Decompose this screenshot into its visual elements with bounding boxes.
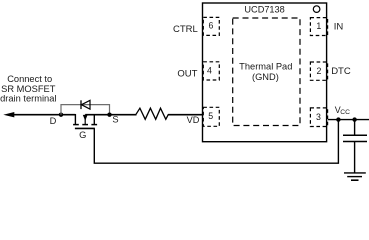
diode D1 (body diode) [81, 100, 90, 109]
svg-text:1: 1 [316, 21, 321, 31]
svg-text:G: G [79, 130, 86, 140]
svg-text:OUT: OUT [177, 69, 197, 80]
wire: VCC to capacitor [354, 120, 356, 135]
svg-text:Connect to: Connect to [7, 74, 52, 84]
node VCC junction dot (capacitor branch) [352, 117, 356, 121]
wire: capacitor to ground [354, 142, 356, 173]
pin 5 pad [203, 107, 219, 126]
pin 2 pad [310, 62, 327, 80]
svg-text:5: 5 [208, 111, 213, 121]
pin 3 pad [310, 108, 327, 127]
wire: resistor to VD pin [168, 114, 203, 116]
svg-text:D: D [50, 116, 57, 126]
pin 6 pad [203, 17, 219, 35]
node S junction dot [107, 113, 111, 117]
op-amp U1 UCD7138 package outline [203, 3, 327, 142]
net label VCC [335, 105, 350, 116]
thermal pad label [239, 61, 292, 82]
node D junction dot [59, 113, 63, 117]
node VCC junction dot (gate branch) [336, 117, 340, 121]
transistor Q1 (blocking MOSFET) [73, 114, 97, 128]
thermal pad (GND) dashed outline [233, 18, 300, 126]
ground [344, 173, 366, 180]
capacitor C1 [343, 135, 367, 141]
svg-text:DTC: DTC [331, 66, 351, 77]
svg-text:drain terminal: drain terminal [0, 94, 56, 104]
svg-text:UCD7138: UCD7138 [244, 4, 284, 14]
svg-text:Thermal Pad: Thermal Pad [239, 61, 292, 71]
wire: gate to VCC [94, 120, 338, 164]
pin 1 pad [310, 18, 327, 36]
wire: source segment [85, 114, 136, 116]
svg-text:CTRL: CTRL [173, 24, 198, 35]
wire: body-diode branch [61, 105, 110, 115]
svg-text:4: 4 [207, 66, 212, 76]
svg-text:3: 3 [316, 112, 321, 122]
svg-text:6: 6 [208, 21, 213, 31]
svg-text:(GND): (GND) [252, 72, 279, 82]
node label: Connect to SR MOSFET drain terminal [0, 74, 56, 104]
resistor R1 [136, 108, 168, 119]
svg-text:S: S [112, 115, 118, 125]
wire: main drain wire with off-page arrow [3, 112, 75, 117]
svg-text:2: 2 [317, 66, 322, 76]
svg-text:SR MOSFET: SR MOSFET [1, 84, 56, 94]
pin 4 pad [203, 62, 219, 80]
svg-text:VD: VD [187, 115, 200, 125]
wire: VCC rail [328, 119, 369, 121]
svg-text:CC: CC [340, 109, 350, 116]
svg-text:IN: IN [334, 21, 344, 32]
pin 1 indicator circle [313, 6, 320, 13]
